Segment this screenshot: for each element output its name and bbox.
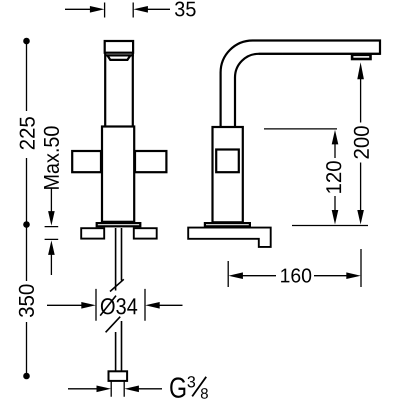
dots bbox=[23, 38, 30, 45]
body front bbox=[102, 127, 134, 222]
label G bbox=[170, 377, 185, 398]
left wing bbox=[72, 151, 101, 172]
label 120 bbox=[326, 161, 341, 193]
flange front bbox=[97, 223, 141, 226]
diameter slash bbox=[100, 296, 116, 316]
deck front left bbox=[81, 228, 104, 238]
35 dim bbox=[65, 3, 170, 18]
collar bbox=[105, 55, 134, 60]
square button bbox=[216, 150, 239, 173]
body side bbox=[213, 127, 243, 222]
column bbox=[105, 53, 133, 127]
arrows 160 bbox=[228, 272, 243, 279]
right wing bbox=[135, 151, 166, 172]
arrows dia34 bbox=[81, 302, 96, 309]
spout outline bbox=[221, 41, 380, 127]
Max50 lines bbox=[45, 188, 59, 275]
arrows G38 bbox=[97, 386, 112, 393]
350 dim line bbox=[26, 225, 28, 377]
arrows 200 bbox=[357, 62, 364, 79]
label 160 bbox=[281, 268, 311, 282]
deck extension bbox=[292, 225, 368, 227]
flange side bbox=[205, 223, 250, 226]
aerator bbox=[352, 55, 370, 59]
label frac8 bbox=[201, 388, 208, 399]
pipe bbox=[116, 228, 122, 291]
arrows 120 bbox=[332, 130, 339, 145]
fraction slash bbox=[192, 377, 206, 397]
deck side profile bbox=[188, 228, 271, 247]
cap bbox=[105, 41, 133, 53]
arrows Max50 bbox=[48, 211, 55, 226]
nut bbox=[109, 371, 128, 381]
160 dim bbox=[228, 249, 361, 287]
arrows 35 bbox=[90, 6, 105, 13]
label O34 bbox=[101, 298, 137, 314]
label 350 bbox=[19, 285, 34, 318]
label frac3 bbox=[188, 376, 196, 387]
G38 dim bbox=[68, 381, 162, 397]
label 35 bbox=[175, 2, 196, 17]
label Max50 bbox=[44, 126, 59, 188]
dia34 dim bbox=[47, 289, 183, 321]
label 200 bbox=[354, 126, 369, 158]
120 dim bbox=[264, 129, 337, 212]
225 dim line bbox=[26, 41, 28, 225]
200 dim bbox=[360, 76, 362, 212]
label 225 bbox=[20, 117, 35, 149]
deck front right bbox=[134, 228, 157, 238]
break slashes bbox=[106, 279, 124, 332]
